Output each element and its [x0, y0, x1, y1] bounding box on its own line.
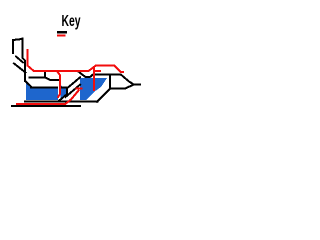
lake A top-left diagonal — [25, 81, 32, 88]
boat bottom edge — [110, 85, 134, 89]
red main line — [28, 50, 124, 72]
lake A top line — [31, 86, 57, 88]
boat left edge — [109, 75, 111, 88]
zigzag below red line — [45, 77, 59, 80]
left line y77 — [30, 76, 45, 78]
hatch long diagonal H2 — [66, 85, 81, 97]
lake B top line — [62, 86, 68, 88]
lake B right edge — [66, 88, 68, 94]
under-blue line — [25, 100, 98, 102]
hatch long diagonal H1 — [67, 77, 80, 88]
blue region E (right lake) — [80, 78, 107, 100]
bottom black line — [12, 105, 80, 107]
lake B bottom cut diagonal — [60, 94, 68, 100]
blue region B (small lake right of red branch) — [61, 85, 68, 100]
svg-text:Key: Key — [62, 13, 81, 30]
diagonal d1 — [16, 57, 23, 63]
top black path over right lake — [78, 71, 134, 84]
legend black bar — [57, 31, 67, 34]
blue region A (left lake) — [26, 82, 58, 101]
boat tail — [133, 84, 140, 86]
tick at x45 — [44, 72, 46, 78]
red stub y71 — [94, 70, 100, 72]
diagonal to boat — [97, 89, 110, 102]
legend red bar — [57, 35, 66, 37]
red tick y88.7 — [77, 88, 82, 90]
red bottom line — [17, 91, 79, 104]
red vertical x94 — [93, 67, 95, 90]
red branch down — [57, 71, 60, 97]
diagonal d2 — [14, 64, 26, 73]
n-shape left flag — [13, 39, 22, 53]
